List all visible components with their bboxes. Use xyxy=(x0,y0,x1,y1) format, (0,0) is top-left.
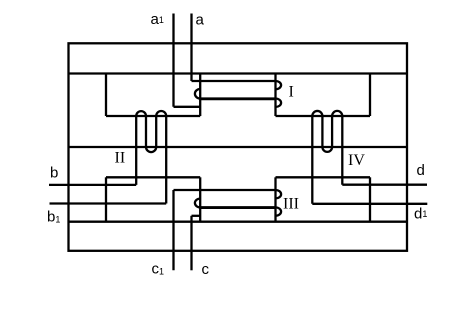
core inner bottom line xyxy=(68,221,409,223)
winding I front turn 1 xyxy=(192,80,276,82)
winding II turn wire 2 xyxy=(145,116,147,147)
wire a1 stub xyxy=(174,106,201,108)
winding III right arc 1 xyxy=(276,190,282,198)
svg-text:IV: IV xyxy=(348,152,365,169)
terminal b lead xyxy=(49,184,136,186)
winding IV top arc 2 xyxy=(332,111,342,116)
winding IV bottom arc xyxy=(322,147,332,152)
core center limb left edge upper xyxy=(199,74,201,117)
winding III right arc 2 xyxy=(276,207,282,215)
winding I front turn 2 xyxy=(200,97,275,100)
terminal d lead xyxy=(342,184,427,186)
winding II bottom arc xyxy=(146,147,156,152)
core middle bar top line right segment xyxy=(276,115,371,117)
wire lintel lower left horizontal xyxy=(106,176,200,178)
core left window inner edge lower xyxy=(105,177,107,221)
terminal b1 lead xyxy=(50,202,167,204)
winding IV turn wire 1 xyxy=(311,116,313,204)
core center limb right edge lower xyxy=(274,177,276,221)
svg-text:a: a xyxy=(196,12,205,29)
winding IV turn wire 4 xyxy=(341,116,343,185)
winding II top arc 1 xyxy=(136,111,146,116)
core right window inner edge lower xyxy=(369,177,371,221)
core center limb left edge lower xyxy=(199,177,201,221)
core inner top line xyxy=(68,72,409,74)
winding I right arc 1 xyxy=(276,81,282,89)
svg-text:b: b xyxy=(50,165,58,182)
winding IV turn wire 3 xyxy=(331,116,333,147)
wire lintel lower right horizontal xyxy=(276,176,371,178)
svg-text:c: c xyxy=(202,261,210,278)
core center limb right edge upper xyxy=(274,74,276,117)
core middle bar top line left segment xyxy=(106,115,200,117)
terminal d1 lead xyxy=(312,203,427,205)
svg-text:III: III xyxy=(283,196,299,213)
svg-text:I: I xyxy=(289,84,294,101)
winding I right arc 2 xyxy=(276,99,282,108)
core outer frame xyxy=(69,43,408,251)
winding III left arc xyxy=(195,199,200,208)
winding I left arc xyxy=(195,89,200,99)
winding IV top arc 1 xyxy=(312,111,322,116)
winding III front turn 1 xyxy=(174,189,276,191)
winding II turn wire 4 xyxy=(165,116,167,204)
terminal c lead xyxy=(190,216,192,270)
winding III front turn 2 xyxy=(200,206,275,209)
winding II turn wire 1 xyxy=(135,116,137,185)
winding II top arc 2 xyxy=(156,111,166,116)
svg-text:II: II xyxy=(115,150,126,167)
svg-text:d: d xyxy=(417,162,425,179)
winding II turn wire 3 xyxy=(155,116,157,147)
wire c stub xyxy=(192,215,201,217)
terminal a lead xyxy=(190,14,192,82)
core middle bar bottom line xyxy=(68,146,409,148)
terminal a1 lead xyxy=(172,14,174,107)
core right window inner edge upper xyxy=(369,74,371,117)
winding IV turn wire 2 xyxy=(321,116,323,147)
core left window inner edge upper xyxy=(105,74,107,117)
terminal c1 lead xyxy=(172,190,174,270)
